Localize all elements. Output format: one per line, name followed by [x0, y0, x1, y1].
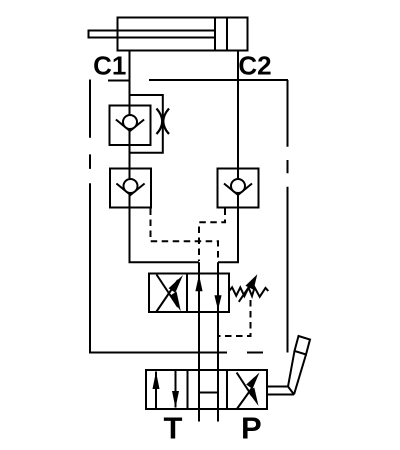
valve DV1 crossed arrow 1 [157, 275, 179, 308]
valve MV1 divider 1 [187, 370, 189, 409]
valve DV1 crossed arrow 2 [157, 280, 179, 312]
check valve V2 ball [124, 179, 138, 193]
wire port B line [217, 262, 219, 421]
valve MV1 crossed arrow 1 [237, 373, 252, 397]
lever arm [267, 387, 295, 395]
valve DV1 down arrow head [214, 295, 221, 310]
check valve V3 seat [224, 184, 252, 196]
cylinder piston [214, 18, 216, 51]
check valve V3 box [218, 169, 259, 208]
valve DV1 divider [186, 274, 188, 313]
enclosure border right [287, 80, 289, 353]
wire C2 line [237, 51, 239, 263]
wire bypass loop [130, 95, 163, 153]
wire top stub left [108, 80, 130, 82]
check valve V3 ball [231, 179, 245, 193]
valve MV1 down arrow [175, 371, 177, 408]
restrictor (flow control) [157, 109, 170, 135]
check valve V1 box [110, 106, 151, 146]
svg-text:T: T [164, 411, 183, 446]
wire bus right [218, 261, 239, 263]
check valve V1 ball [123, 115, 137, 129]
lever shaft [288, 351, 306, 395]
pilot line to spring side [219, 300, 251, 336]
wire port A line [198, 262, 200, 421]
check valve V2 box [110, 169, 151, 208]
lever grip [295, 336, 311, 355]
valve MV1 center crossbar [199, 392, 218, 394]
check valve V2 seat [116, 184, 144, 196]
wire top horizontal [149, 79, 288, 81]
enclosure border left [89, 80, 91, 353]
port T stub [198, 409, 200, 422]
cylinder rod [89, 31, 216, 38]
pilot line from V2 [151, 209, 219, 263]
pilot line from V3 [199, 209, 225, 262]
svg-text:C1: C1 [93, 51, 126, 81]
valve DV1 up arrow head [195, 275, 202, 292]
svg-text:P: P [241, 411, 262, 446]
check valve V1 seat [116, 120, 144, 132]
wire bus left [129, 261, 200, 263]
cylinder body [118, 18, 248, 51]
adjustment arrow [239, 286, 250, 302]
valve MV1 crossed arrow 2 [237, 388, 252, 409]
svg-text:C2: C2 [238, 51, 271, 81]
wire C1 line [129, 51, 131, 263]
valve MV1 box (3-position, lever) [146, 370, 267, 409]
valve DV1 box (2-position) [149, 274, 229, 313]
valve MV1 up arrow [155, 372, 157, 409]
enclosure border bottom [89, 352, 263, 354]
port P stub [217, 409, 219, 422]
valve MV1 divider 2 [226, 370, 228, 409]
spring (adjustable) [230, 287, 269, 297]
